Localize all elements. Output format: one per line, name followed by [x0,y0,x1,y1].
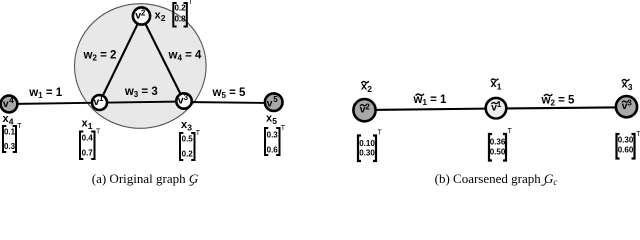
svg-text:T: T [378,130,383,137]
svg-text:0.5: 0.5 [182,135,194,144]
svg-text:w1 = 1: w1 = 1 [413,94,448,107]
svg-text:w4 = 4: w4 = 4 [168,50,203,63]
node v~2 [353,99,375,121]
node v~3 [616,96,637,117]
svg-text:(a) Original graph G: (a) Original graph G [92,171,199,186]
svg-text:w5 = 5: w5 = 5 [212,87,247,100]
svg-text:2: 2 [141,9,146,18]
label x~1 [491,78,502,92]
svg-text:0.36: 0.36 [490,137,506,146]
svg-text:0.30: 0.30 [359,148,375,157]
svg-text:0.3: 0.3 [4,142,16,151]
svg-text:T: T [196,130,201,137]
label x~3 [622,79,633,93]
edge w~2 (v~1 to v~3) [496,107,627,108]
svg-text:0.8: 0.8 [174,15,186,24]
edge w~1 (v~2 to v~1) [365,109,497,111]
svg-text:2: 2 [367,84,372,94]
svg-text:1: 1 [497,82,502,92]
svg-text:0.2: 0.2 [174,3,186,12]
svg-text:w2 = 5: w2 = 5 [541,94,576,107]
edge w1 (v4 to v1) [9,103,100,104]
svg-text:3: 3 [628,82,633,92]
label w~2 = 5 [541,94,576,107]
svg-text:T: T [281,125,286,132]
svg-text:w2 = 2: w2 = 2 [83,50,117,63]
svg-text:1: 1 [497,100,502,109]
edge w5 (v3 to v5) [184,102,274,103]
svg-text:1: 1 [88,121,93,131]
svg-text:3: 3 [627,99,632,108]
svg-text:w1 = 1: w1 = 1 [28,87,63,100]
feature vector x5 = [0.3 0.6]T [265,125,286,155]
svg-text:0.10: 0.10 [359,139,375,148]
edge w2 (v1 to v2) [100,16,142,103]
node v4 [1,96,18,113]
svg-text:T: T [508,128,513,135]
edge w3 (v1 to v3) [100,102,185,103]
cluster ellipse (shaded supernode region) [75,4,207,129]
node v3 [176,93,191,109]
feature vector x4 = [0.1 0.3]T [3,123,22,152]
svg-text:0.60: 0.60 [618,146,634,155]
feature vector x~2 = [0.10 0.30]T [358,130,383,162]
svg-text:0.50: 0.50 [490,148,506,157]
svg-text:4: 4 [9,96,14,105]
feature vector x2 = [0.2 0.8]T [173,0,193,27]
svg-text:3: 3 [184,93,189,102]
node v~1 [486,98,507,119]
feature vector x1 = [0.4 0.7]T [80,129,101,160]
feature vector x~1 = [0.36 0.50]T [489,128,513,161]
node v2 [133,7,150,24]
svg-text:0.6: 0.6 [267,145,279,154]
node v5 [265,93,283,111]
svg-text:3: 3 [187,123,192,133]
svg-text:2: 2 [161,13,166,23]
svg-text:w3 = 3: w3 = 3 [124,86,158,99]
svg-text:0.30: 0.30 [618,136,634,145]
edge w4 (v2 to v3) [142,16,185,101]
feature vector x3 = [0.5 0.2]T [180,130,201,160]
svg-text:0.7: 0.7 [82,149,94,158]
svg-text:5: 5 [272,116,277,126]
label x~2 [361,81,372,95]
svg-text:0.4: 0.4 [82,134,94,143]
svg-text:5: 5 [273,95,278,104]
label w~1 = 1 [413,94,448,107]
svg-text:v: v [3,98,9,110]
svg-text:1: 1 [99,94,104,103]
svg-text:(b) Coarsened graph Gc: (b) Coarsened graph Gc [435,171,558,187]
svg-text:T: T [17,123,22,130]
svg-text:2: 2 [365,102,370,111]
svg-text:T: T [188,0,193,6]
feature vector x~3 = [0.30 0.60]T [617,131,640,159]
svg-text:0.3: 0.3 [267,131,279,140]
svg-text:T: T [636,131,640,138]
svg-text:0.1: 0.1 [4,127,16,136]
node v1 [92,94,107,110]
svg-text:T: T [96,129,101,136]
svg-text:v: v [267,97,273,109]
svg-text:0.2: 0.2 [182,149,194,158]
